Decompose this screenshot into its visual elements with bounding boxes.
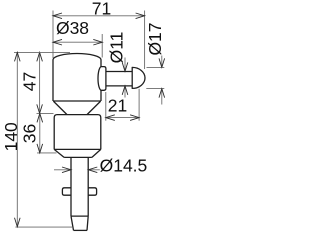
- tip taper: [71, 216, 88, 230]
- dimension 21: [106, 89, 139, 121]
- shaft tab left: [62, 188, 71, 195]
- extension line x=139.1: [138, 89, 140, 121]
- dimension Ø14.5: [54, 169, 100, 171]
- extension line x=105.8: [105, 92, 107, 121]
- shaft tab right: [88, 188, 96, 195]
- extension line y=50.2: [14, 51, 70, 53]
- extension line x=101.5 (Ø38 right): [101, 34, 103, 58]
- flange: [54, 115, 101, 150]
- dimension 140: [14, 52, 72, 227]
- flange chamfer line: [54, 148, 101, 150]
- svg-text:Ø14.5: Ø14.5: [100, 155, 148, 175]
- svg-text:21: 21: [108, 95, 127, 115]
- dimension 71: [53, 15, 145, 17]
- svg-text:Ø11: Ø11: [106, 32, 126, 64]
- svg-text:71: 71: [92, 0, 111, 19]
- shaft: [71, 157, 88, 216]
- cone left: [54, 101, 67, 114]
- tip chamfer line: [71, 215, 88, 217]
- extension line y=152.9: [37, 152, 57, 154]
- svg-text:47: 47: [20, 72, 40, 91]
- extension line x=53 (71 + Ø38 left): [52, 11, 54, 59]
- part: head dome: [53, 53, 145, 230]
- extension line y=113.4: [37, 112, 54, 114]
- cone right: [87, 101, 100, 114]
- head bottom line: [53, 100, 101, 102]
- svg-text:Ø17: Ø17: [145, 22, 165, 55]
- flange bottom face: [64, 156, 92, 158]
- extension line x=144.6 (71 right, down to cap top): [144, 11, 146, 70]
- svg-text:36: 36: [20, 124, 40, 143]
- svg-text:Ø38: Ø38: [56, 18, 89, 38]
- dimension Ø17: [146, 56, 164, 105]
- dimension 36: [37, 113, 57, 152]
- svg-text:140: 140: [1, 122, 21, 151]
- cap (spherical knob): [132, 67, 145, 88]
- flange bottom chamfers: [54, 149, 101, 157]
- dimension 47: [39, 52, 41, 113]
- tip bottom face: [74, 229, 88, 231]
- collar: [98, 67, 106, 91]
- pin lines: [106, 72, 132, 86]
- extension line y=227.1: [15, 226, 72, 228]
- dimension Ø11: [124, 58, 126, 98]
- dimension Ø38: [53, 41, 102, 43]
